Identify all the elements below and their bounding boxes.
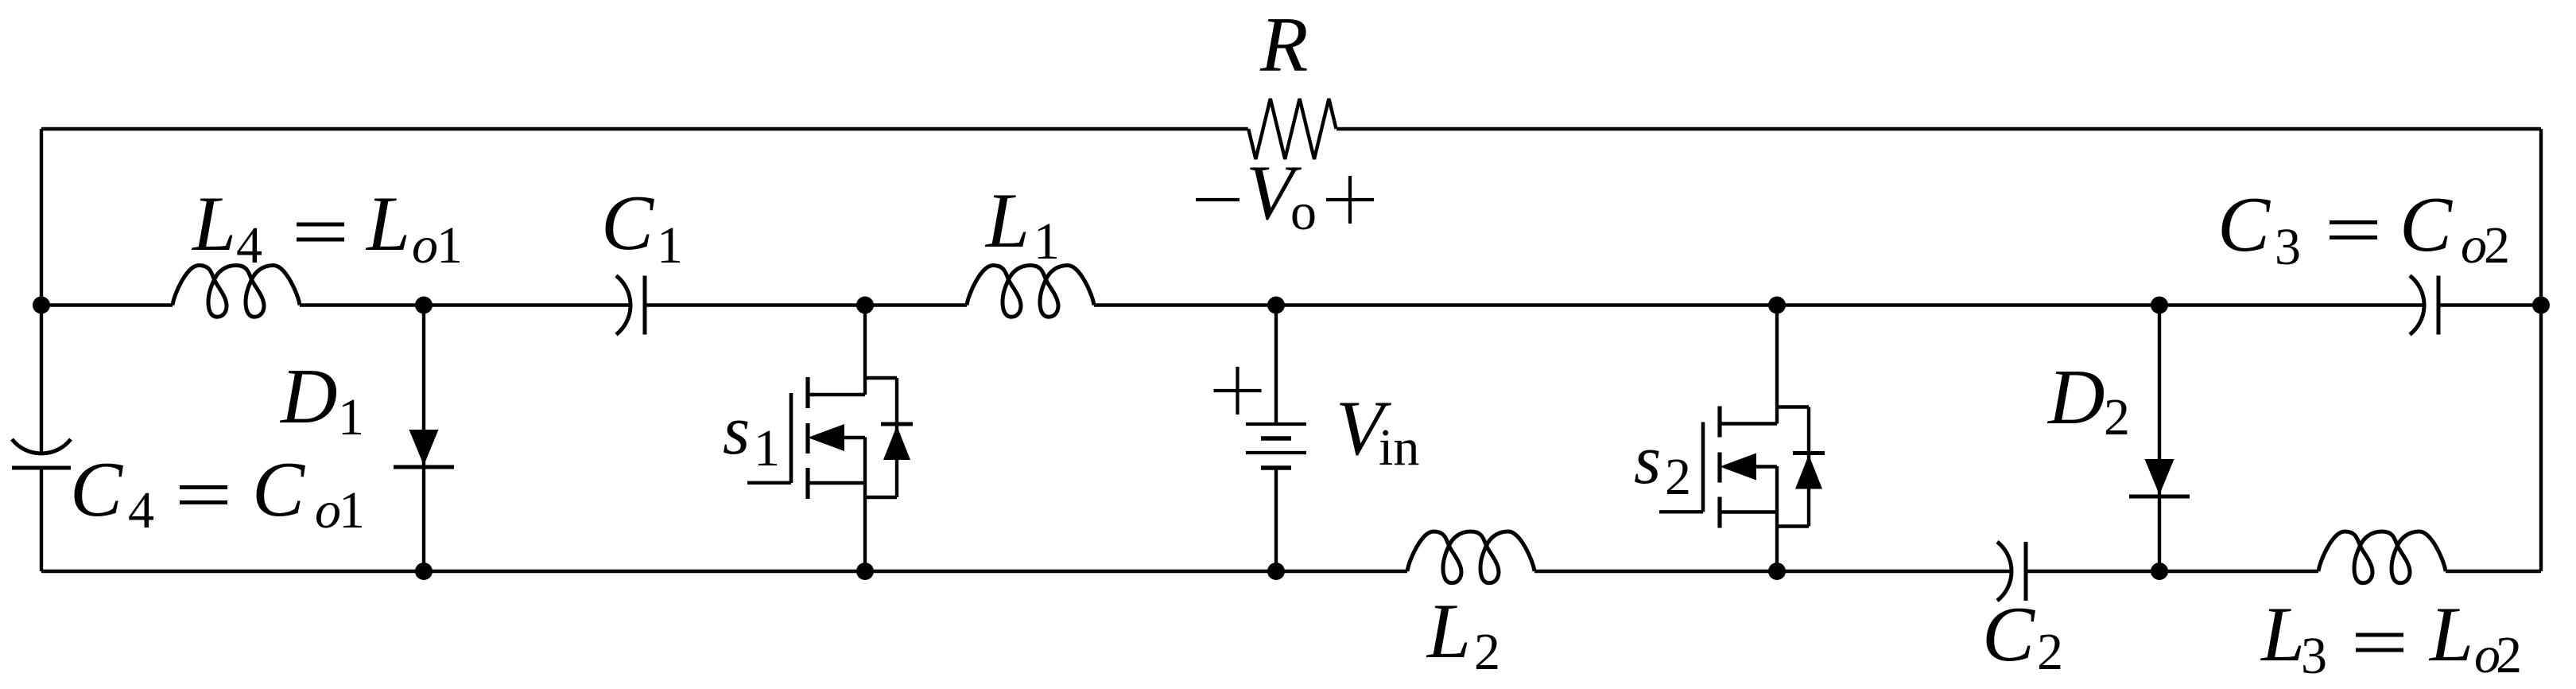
- svg-text:C: C: [252, 446, 305, 533]
- svg-text:3: 3: [2275, 218, 2301, 276]
- svg-text:2: 2: [2104, 388, 2130, 446]
- svg-text:s: s: [1634, 422, 1661, 499]
- svg-text:in: in: [1379, 418, 1419, 477]
- svg-text:C: C: [70, 446, 123, 533]
- svg-text:1: 1: [754, 419, 780, 477]
- svg-text:2: 2: [2037, 623, 2063, 681]
- svg-text:1: 1: [657, 216, 683, 274]
- svg-text:1: 1: [1034, 212, 1060, 271]
- svg-text:C: C: [1982, 591, 2035, 678]
- svg-text:L: L: [984, 177, 1030, 264]
- svg-text:L: L: [2260, 591, 2305, 678]
- svg-text:1: 1: [338, 388, 364, 446]
- svg-text:2: 2: [1474, 623, 1500, 681]
- svg-text:4: 4: [236, 216, 262, 274]
- svg-text:C: C: [2399, 181, 2453, 268]
- svg-text:1: 1: [339, 481, 365, 539]
- svg-text:4: 4: [128, 481, 154, 539]
- svg-text:2: 2: [2496, 626, 2522, 684]
- svg-text:o: o: [412, 216, 438, 274]
- svg-text:D: D: [2046, 354, 2105, 441]
- svg-text:C: C: [2217, 181, 2271, 268]
- svg-text:o: o: [1290, 183, 1317, 241]
- svg-text:o: o: [315, 481, 341, 539]
- svg-text:D: D: [279, 353, 338, 440]
- svg-text:3: 3: [2301, 627, 2327, 685]
- svg-text:C: C: [601, 180, 654, 267]
- svg-text:s: s: [723, 392, 750, 469]
- svg-text:R: R: [1259, 2, 1308, 88]
- svg-text:1: 1: [436, 216, 463, 274]
- svg-text:L: L: [191, 181, 236, 267]
- svg-text:L: L: [1426, 588, 1471, 675]
- svg-text:2: 2: [2484, 216, 2510, 274]
- svg-text:L: L: [365, 181, 410, 267]
- svg-text:L: L: [2428, 591, 2473, 678]
- svg-text:2: 2: [1665, 448, 1691, 506]
